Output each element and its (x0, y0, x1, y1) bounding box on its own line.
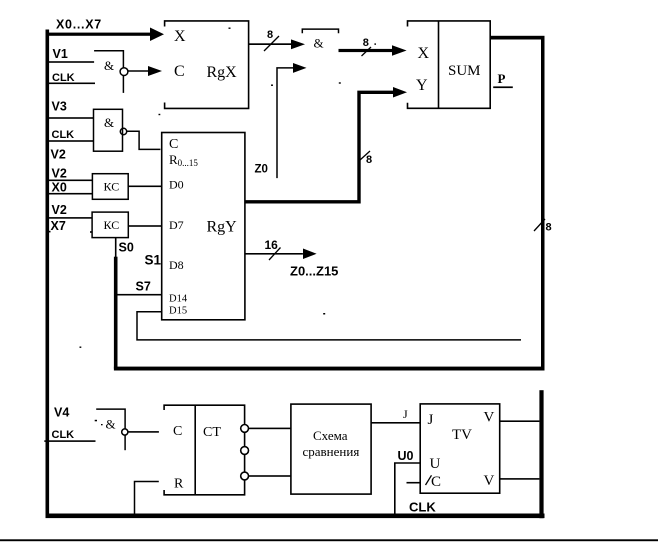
svg-text:&: & (106, 417, 116, 432)
node 8 on right vertical (534, 219, 545, 231)
svg-text:X: X (418, 45, 430, 62)
svg-text:S1: S1 (145, 253, 162, 268)
svg-text:RgX: RgX (207, 64, 238, 81)
svg-text:C: C (169, 137, 178, 152)
wire V2 to KC2 (48, 217, 92, 219)
svg-text:сравнения: сравнения (303, 444, 360, 459)
svg-text:V1: V1 (53, 47, 68, 61)
wire TV V-out bottom (500, 478, 540, 480)
svg-text:CLK: CLK (52, 129, 75, 141)
svg-text:D15: D15 (169, 306, 187, 317)
wire TV V-out top (500, 420, 540, 422)
wire X0...X7 thick bus into RgX (49, 33, 152, 36)
noise specks (80, 28, 377, 426)
svg-text:V2: V2 (52, 167, 67, 181)
svg-text:V4: V4 (54, 406, 69, 420)
svg-text:CLK: CLK (409, 500, 436, 515)
svg-text:C: C (431, 474, 441, 490)
wire U0 from CLK net (395, 463, 420, 514)
svg-text:R: R (174, 477, 184, 492)
comparator block (Схема сравнения) (291, 404, 371, 494)
svg-text:V2: V2 (52, 203, 67, 217)
node 8 on RgX out (264, 36, 279, 51)
wire gate DD1 out to RgX C (128, 70, 150, 72)
wire V1 (48, 61, 94, 63)
wire RgY 16-bit out (245, 253, 303, 255)
wire CLK2 (48, 140, 94, 142)
svg-text:8: 8 (546, 222, 552, 234)
svg-text:CLK: CLK (52, 429, 75, 441)
svg-text:C: C (174, 63, 185, 80)
adder SUM (408, 21, 491, 108)
wire thick feedback bottom horizontal (114, 367, 545, 371)
svg-text:&: & (314, 36, 324, 51)
register RgX (165, 21, 249, 109)
wire DD3 out 8-bit to SUM X (339, 49, 395, 52)
wire RgX out to and-group (249, 43, 294, 45)
svg-text:J: J (403, 407, 408, 421)
svg-text:X7: X7 (51, 219, 66, 233)
left bus (thick vertical) (46, 30, 50, 517)
svg-text:8: 8 (363, 37, 369, 49)
wire Z0 tap (277, 68, 302, 178)
svg-text:CLK: CLK (52, 72, 75, 84)
page bottom border line (0, 539, 658, 541)
svg-text:КС: КС (104, 180, 120, 194)
wire RgY 8-bit out thick to SUM Y (245, 92, 396, 202)
register RgY (162, 133, 245, 320)
svg-text:V2: V2 (51, 148, 66, 162)
wire S7 to RgY D14 (116, 294, 161, 296)
svg-text:&: & (104, 115, 114, 130)
combinational block KC2 (92, 212, 128, 238)
svg-text:16: 16 (265, 238, 279, 252)
bottom thick wire CLK net (46, 514, 545, 519)
svg-text:U: U (430, 456, 441, 472)
wire D15 loop (137, 312, 521, 340)
svg-text:Y: Y (416, 77, 428, 94)
svg-text:U0: U0 (398, 449, 414, 463)
trigger TV (420, 404, 500, 493)
and-gate DD2 (V3,CLK) (94, 109, 127, 151)
svg-text:8: 8 (267, 29, 273, 41)
svg-text:Схема: Схема (313, 428, 348, 443)
svg-text:P: P (498, 71, 506, 86)
svg-text:SUM: SUM (448, 63, 481, 79)
wire CLK3 (44, 440, 95, 442)
svg-text:D7: D7 (169, 218, 184, 232)
wire thick feedback right vertical (541, 37, 545, 371)
wire KC2 bottom to S0 feedback (115, 238, 117, 258)
and-gate group DD3 (302, 29, 338, 33)
and-gate DD1 (V1,CLK) (94, 51, 128, 93)
wire V3 (48, 117, 94, 119)
wire V4 stub (95, 420, 97, 422)
wire CT R from CLK net (135, 482, 159, 514)
svg-text:8: 8 (366, 154, 372, 166)
wire C input stub (407, 482, 421, 484)
svg-text:V: V (484, 473, 495, 489)
counter CT (164, 405, 248, 495)
wire V2 to KC1 (48, 180, 92, 182)
combinational block KC1 (92, 174, 128, 200)
wire comparator out to J (371, 422, 420, 424)
wire X7 stubs (48, 231, 51, 233)
svg-text:D8: D8 (169, 258, 184, 272)
svg-text:S7: S7 (136, 280, 151, 294)
svg-text:&: & (104, 58, 114, 73)
svg-text:J: J (428, 412, 434, 428)
wire S0 thick feedback vertical (114, 257, 118, 369)
svg-text:D0: D0 (169, 178, 184, 192)
wire X0 to KC1 (48, 193, 92, 195)
wire DD4 out to CT C (128, 431, 159, 433)
svg-text:X0...X7: X0...X7 (56, 18, 102, 32)
svg-text:X: X (174, 28, 186, 45)
wire KC1 out to RgY D0 (128, 186, 162, 188)
svg-text:V: V (484, 410, 495, 426)
svg-text:S0: S0 (119, 241, 134, 255)
wire gate DD2 out to RgY C (127, 131, 161, 149)
svg-text:КС: КС (104, 218, 120, 232)
svg-text:X0: X0 (52, 181, 67, 195)
wire CLK (48, 83, 95, 85)
wire right thick vertical bottom section (539, 390, 543, 518)
svg-text:C: C (173, 424, 182, 439)
wire CT out top to comparator (249, 428, 291, 430)
svg-text:V3: V3 (52, 99, 67, 113)
svg-text:D14: D14 (169, 294, 188, 305)
svg-text:TV: TV (452, 427, 472, 443)
svg-text:RgY: RgY (207, 219, 238, 236)
wire SUM out thick top (490, 36, 544, 40)
node 8 on Y wire (360, 151, 370, 160)
svg-text:CT: CT (203, 425, 221, 440)
svg-text:Z0...Z15: Z0...Z15 (290, 264, 338, 279)
wire KC2 out to RgY D7 (128, 225, 161, 227)
svg-text:Z0: Z0 (255, 164, 268, 176)
and-gate DD4 (V4,CLK) (96, 409, 128, 450)
wire CT out bottom to comparator (249, 475, 291, 477)
